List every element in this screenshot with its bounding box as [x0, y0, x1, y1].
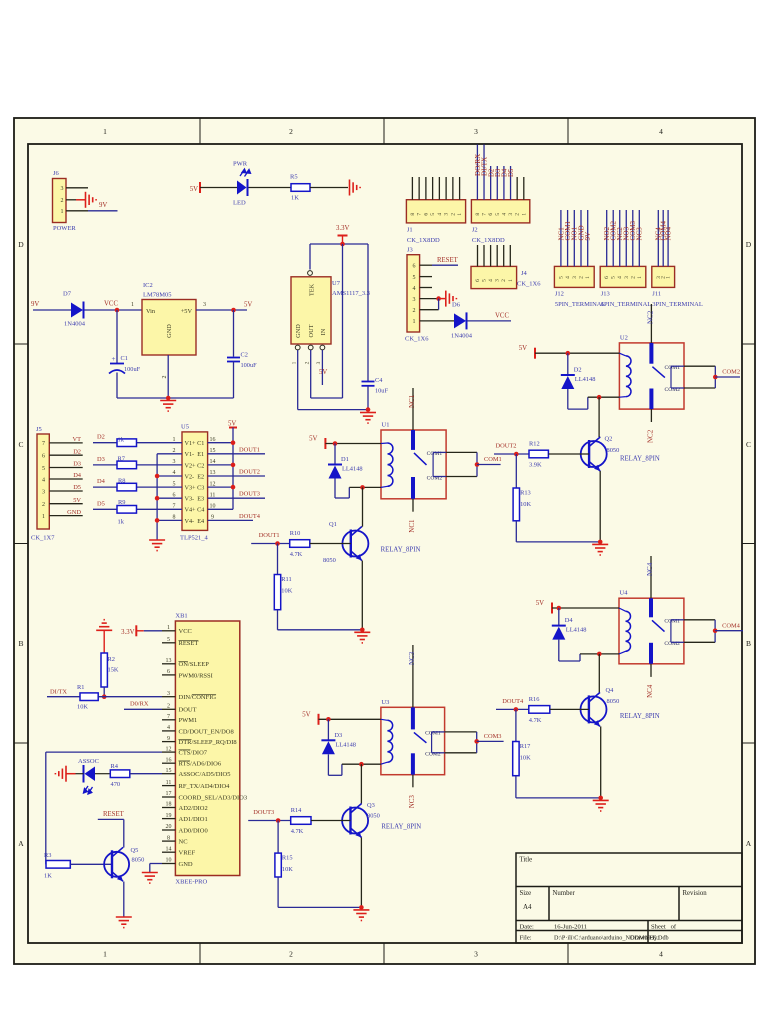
svg-text:D4: D4 — [97, 478, 106, 485]
svg-text:D4: D4 — [565, 617, 574, 624]
relay U4 RELAY_8PIN — [619, 590, 684, 664]
svg-text:LL4148: LL4148 — [575, 376, 596, 383]
svg-text:3PIN_TERMINAL: 3PIN_TERMINAL — [652, 301, 703, 308]
J6 pin 1 — [66, 210, 88, 212]
wire NC below U4 — [650, 664, 652, 677]
wire emitter rail — [278, 838, 364, 910]
svg-text:1k: 1k — [118, 437, 125, 444]
svg-text:DOUT3: DOUT3 — [253, 809, 274, 816]
J3 pin 5 — [420, 276, 432, 278]
svg-text:RELAY_8PIN: RELAY_8PIN — [381, 824, 421, 831]
wire 3.3V rail — [310, 242, 368, 247]
wire diode to coil- — [328, 754, 381, 775]
svg-text:10: 10 — [210, 504, 216, 510]
svg-text:D: D — [18, 240, 24, 249]
resistor R14 4.7K — [291, 807, 311, 835]
svg-text:5PIN_TERMINAL: 5PIN_TERMINAL — [555, 301, 606, 308]
svg-text:C1: C1 — [121, 355, 128, 362]
wire C4 branch — [367, 244, 369, 381]
svg-text:IC2: IC2 — [143, 282, 153, 289]
svg-text:D2: D2 — [73, 448, 81, 455]
svg-text:5: 5 — [167, 637, 170, 643]
wire GND pin1 down — [297, 350, 299, 410]
svg-text:1: 1 — [167, 625, 170, 631]
svg-text:10K: 10K — [281, 588, 292, 595]
svg-text:ASSOC/AD5/DIO5: ASSOC/AD5/DIO5 — [179, 771, 231, 778]
svg-text:13: 13 — [166, 658, 172, 664]
svg-text:3: 3 — [572, 276, 578, 279]
diode D4 LL4148 — [552, 608, 587, 640]
svg-text:5V: 5V — [309, 436, 317, 443]
junction — [436, 296, 441, 301]
svg-text:COORD_SEL/AD3/DIO3: COORD_SEL/AD3/DIO3 — [179, 794, 248, 801]
wire R2 to DIN — [103, 687, 105, 697]
svg-text:J3: J3 — [407, 247, 413, 254]
wire U3 coil to Q collector — [360, 764, 362, 803]
junction — [115, 308, 120, 313]
svg-text:V2- E2: V2- E2 — [185, 473, 205, 480]
wire — [249, 187, 292, 189]
svg-text:5: 5 — [482, 279, 488, 282]
wire — [233, 310, 235, 357]
svg-text:AD2/DIO2: AD2/DIO2 — [179, 805, 208, 812]
svg-text:3.3V: 3.3V — [336, 225, 349, 232]
svg-text:5: 5 — [42, 466, 45, 472]
wire diode to coil- — [335, 479, 381, 499]
svg-text:OUT: OUT — [308, 324, 315, 337]
svg-text:NC3: NC3 — [636, 227, 644, 241]
svg-text:2: 2 — [61, 198, 64, 204]
svg-text:5: 5 — [413, 275, 416, 281]
svg-text:TLP521_4: TLP521_4 — [180, 535, 209, 542]
svg-text:ASSOC: ASSOC — [78, 758, 99, 765]
svg-text:NC3: NC3 — [408, 651, 416, 665]
svg-text:AD0/DIO0: AD0/DIO0 — [179, 827, 208, 834]
svg-text:CK_1X6: CK_1X6 — [405, 336, 429, 343]
svg-text:1k: 1k — [118, 519, 125, 526]
wire DOUT1 — [251, 541, 290, 546]
resistor R11 10K — [274, 575, 292, 610]
wire — [76, 773, 84, 775]
svg-text:12: 12 — [166, 746, 172, 752]
svg-text:Q5: Q5 — [131, 847, 139, 854]
svg-text:8: 8 — [475, 213, 481, 216]
svg-text:1: 1 — [413, 319, 416, 325]
svg-text:6: 6 — [604, 276, 610, 279]
svg-text:B: B — [746, 639, 751, 648]
J11 pin wires — [658, 210, 668, 266]
resistor R2 15K — [101, 653, 119, 687]
wire VCC — [467, 320, 511, 322]
svg-text:C4: C4 — [375, 377, 383, 384]
svg-text:5V: 5V — [302, 711, 310, 718]
svg-text:6: 6 — [475, 279, 481, 282]
svg-text:5: 5 — [611, 276, 617, 279]
svg-text:D5: D5 — [97, 500, 105, 507]
svg-text:5: 5 — [430, 213, 436, 216]
svg-text:LL4148: LL4148 — [335, 741, 356, 748]
svg-text:J6: J6 — [53, 170, 60, 177]
svg-text:NC4: NC4 — [646, 562, 654, 576]
svg-text:U2: U2 — [620, 334, 628, 341]
svg-text:1: 1 — [521, 213, 527, 216]
svg-text:470: 470 — [111, 781, 121, 788]
wire OUT pin2 — [311, 244, 343, 398]
svg-text:A4: A4 — [523, 903, 532, 911]
wire emitter rail — [278, 561, 365, 633]
svg-text:13: 13 — [210, 470, 216, 476]
wire DOUT4 — [496, 707, 529, 712]
J3 pin 6 + RESET wire — [420, 257, 459, 265]
ground Q1 — [354, 632, 370, 643]
wire to R13 — [515, 454, 517, 488]
ground AMS1117 — [360, 413, 376, 424]
svg-text:R1: R1 — [77, 684, 84, 691]
wire RESET — [98, 819, 124, 847]
wire — [310, 187, 348, 189]
wire U4 coil to Q collector — [598, 654, 601, 693]
svg-text:1: 1 — [508, 279, 514, 282]
wire VCC pin1 — [144, 630, 162, 632]
svg-text:VREF: VREF — [179, 850, 196, 857]
svg-text:V3+ C3: V3+ C3 — [185, 485, 205, 492]
svg-text:CK_1X6: CK_1X6 — [517, 281, 541, 288]
transistor Q4 8050 — [581, 687, 620, 726]
svg-text:J1: J1 — [407, 226, 413, 233]
connector J3 CK_1X6 — [405, 247, 429, 343]
wire DOUT2 (U5 pin13) — [208, 475, 265, 477]
J11 net labels — [655, 221, 673, 241]
zone numbers top — [103, 127, 663, 136]
svg-text:2: 2 — [305, 361, 311, 364]
svg-text:4: 4 — [413, 286, 416, 292]
svg-text:NC2: NC2 — [647, 429, 655, 443]
svg-text:3: 3 — [508, 213, 514, 216]
svg-text:D2: D2 — [574, 367, 582, 374]
svg-text:R14: R14 — [291, 807, 302, 814]
svg-text:A: A — [18, 839, 24, 848]
wire to base — [311, 820, 351, 822]
resistor R12 3.9K — [529, 441, 548, 469]
svg-text:2: 2 — [450, 213, 456, 216]
svg-text:NC3: NC3 — [408, 795, 416, 809]
svg-text:POWER: POWER — [53, 225, 76, 232]
svg-text:18: 18 — [166, 802, 172, 808]
zone letters right — [746, 240, 752, 848]
J12 net labels — [557, 221, 592, 241]
svg-text:8: 8 — [167, 835, 170, 841]
wire 5V — [196, 309, 247, 311]
svg-text:R13: R13 — [520, 490, 531, 497]
wire COM contacts U4 — [671, 620, 743, 643]
svg-text:1: 1 — [585, 276, 591, 279]
svg-text:R9: R9 — [118, 499, 125, 506]
wire U5 input row 1 — [93, 442, 182, 444]
resistor R7 1k — [117, 461, 137, 469]
U5 right pin numbers — [210, 437, 216, 521]
svg-text:2: 2 — [501, 279, 507, 282]
svg-text:16-Jun-2011: 16-Jun-2011 — [554, 923, 587, 930]
svg-text:AMS1117_3.3: AMS1117_3.3 — [332, 290, 370, 297]
junction — [166, 396, 171, 401]
svg-text:Size: Size — [520, 890, 532, 897]
svg-text:5V: 5V — [536, 600, 544, 607]
title block — [516, 853, 742, 943]
svg-text:3.9K: 3.9K — [529, 462, 542, 469]
svg-text:U1: U1 — [382, 422, 390, 429]
wire U5 input row 2 — [93, 464, 182, 466]
svg-text:COM1: COM1 — [484, 456, 502, 463]
connector J13 6PIN_TERMINAL — [600, 266, 651, 308]
J13 pin wires — [607, 210, 640, 266]
svg-text:V4- E4: V4- E4 — [185, 518, 205, 525]
svg-text:3: 3 — [413, 297, 416, 303]
ground right of R5 — [350, 180, 361, 196]
relay U1 RELAY_8PIN — [381, 422, 446, 499]
svg-text:3: 3 — [316, 361, 322, 364]
svg-text:10K: 10K — [520, 755, 531, 762]
svg-text:D0/RX: D0/RX — [130, 700, 149, 707]
svg-text:6: 6 — [42, 454, 45, 460]
svg-text:5V: 5V — [73, 497, 81, 504]
J13 net labels — [603, 221, 644, 241]
J3 pin 2 wire — [420, 299, 439, 310]
diode D3 LL4148 — [321, 719, 356, 754]
svg-text:CK_1X8DD: CK_1X8DD — [472, 237, 505, 244]
svg-text:V1+ C1: V1+ C1 — [185, 440, 205, 447]
svg-text:4: 4 — [42, 477, 45, 483]
wire CTS/DIO7 — [46, 752, 162, 864]
wire to R11 — [277, 544, 279, 575]
svg-text:COM3: COM3 — [484, 733, 502, 740]
svg-text:VCC: VCC — [179, 628, 192, 635]
wire COM contacts U3 — [432, 732, 504, 753]
power port 5V (U3) — [302, 711, 318, 725]
sheet background — [14, 118, 755, 964]
svg-text:DOUT4: DOUT4 — [502, 698, 524, 705]
wire — [116, 373, 118, 399]
svg-text:CTS/DIO7: CTS/DIO7 — [179, 750, 208, 757]
svg-text:LM78M05: LM78M05 — [143, 292, 172, 299]
svg-text:Q3: Q3 — [367, 802, 375, 809]
connector J11 3PIN_TERMINAL — [652, 266, 703, 308]
svg-text:Date:: Date: — [520, 923, 534, 930]
svg-text:D5: D5 — [73, 484, 81, 491]
resistor R8 1k — [117, 483, 137, 491]
svg-text:8050: 8050 — [607, 698, 620, 705]
svg-text:J12: J12 — [555, 290, 564, 297]
wire U5 input row 4 — [93, 508, 182, 510]
svg-text:COM4: COM4 — [722, 622, 741, 629]
wire NC below U2 — [650, 409, 652, 422]
svg-text:10K: 10K — [77, 704, 88, 711]
wire 9V — [88, 210, 118, 212]
svg-text:2: 2 — [289, 950, 293, 959]
J2 pins 3-6 wires — [491, 166, 511, 200]
wire 5V — [319, 717, 381, 722]
svg-text:DTR/SLEEP_RQ/DI8: DTR/SLEEP_RQ/DI8 — [179, 739, 237, 746]
diode D7 1N4004 — [63, 291, 86, 328]
svg-text:1K: 1K — [291, 195, 299, 202]
svg-text:10K: 10K — [282, 866, 293, 873]
svg-text:R16: R16 — [529, 696, 540, 703]
LED PWR — [233, 161, 251, 207]
svg-text:8: 8 — [173, 515, 176, 521]
resistor R16 4.7K — [529, 696, 550, 724]
XB1 pin stubs — [162, 631, 175, 864]
svg-text:7: 7 — [173, 504, 176, 510]
J1 pins — [412, 177, 459, 200]
power port 5V (U2) — [519, 345, 535, 359]
svg-text:D: D — [746, 240, 752, 249]
svg-text:R12: R12 — [529, 441, 540, 448]
wire GND pin10 — [150, 864, 162, 873]
svg-text:+: + — [112, 355, 116, 363]
svg-text:4: 4 — [659, 127, 663, 136]
resistor R4 470 — [110, 763, 130, 788]
wire diode to coil- — [559, 640, 619, 661]
svg-text:5: 5 — [558, 276, 564, 279]
wire NC above U4 — [650, 556, 652, 598]
svg-text:File:: File: — [520, 934, 532, 941]
power port 5V (U1) — [309, 436, 325, 450]
svg-text:NO4: NO4 — [665, 226, 673, 240]
wire — [67, 773, 76, 775]
svg-text:3: 3 — [474, 127, 478, 136]
svg-text:C: C — [18, 440, 23, 449]
transistor Q1 8050 — [323, 521, 368, 564]
connector J1 CK_1X8DD — [406, 200, 465, 244]
J3 pin 3 — [420, 298, 439, 300]
zone letters left — [18, 240, 24, 848]
svg-text:Q1: Q1 — [329, 521, 337, 528]
svg-text:AD1/DIO1: AD1/DIO1 — [179, 816, 208, 823]
svg-text:TEK: TEK — [309, 283, 316, 296]
J5 pin stubs — [49, 443, 82, 516]
ground Q2 — [592, 544, 608, 555]
svg-text:15: 15 — [210, 448, 216, 454]
resistor R5 1K — [290, 174, 310, 202]
svg-text:RESET: RESET — [179, 640, 199, 647]
svg-text:XB1: XB1 — [175, 613, 187, 620]
svg-text:4: 4 — [437, 213, 443, 216]
svg-text:3: 3 — [61, 186, 64, 192]
svg-text:CD/DOUT_EN/DO8: CD/DOUT_EN/DO8 — [179, 728, 234, 735]
svg-text:RF_TX/AD4/DIO4: RF_TX/AD4/DIO4 — [179, 783, 231, 790]
svg-text:1: 1 — [637, 276, 643, 279]
wire to base — [310, 543, 351, 545]
svg-text:5V: 5V — [244, 302, 252, 309]
relay U3 RELAY_8PIN — [381, 699, 445, 775]
svg-text:C2: C2 — [241, 352, 248, 359]
LED ASSOC — [84, 765, 96, 794]
svg-text:VCC: VCC — [495, 313, 509, 320]
wire DIN to pin3 — [98, 696, 162, 698]
wire bottom rail — [298, 409, 368, 411]
svg-text:U5: U5 — [181, 424, 189, 431]
svg-text:RESET: RESET — [103, 811, 125, 818]
wire to base — [550, 708, 589, 710]
svg-text:10: 10 — [166, 858, 172, 864]
svg-text:1: 1 — [173, 437, 176, 443]
ground at J3 pin 3 — [439, 291, 457, 307]
svg-text:8050: 8050 — [367, 813, 380, 820]
wire R3 to Q5 base — [70, 863, 112, 865]
svg-text:D7: D7 — [63, 291, 72, 298]
wire NC above U1 — [412, 388, 414, 430]
svg-text:1N4004: 1N4004 — [64, 321, 86, 328]
svg-text:9: 9 — [167, 736, 170, 742]
connector J2 CK_1X8DD — [471, 200, 529, 244]
svg-text:RELAY_8PIN: RELAY_8PIN — [381, 547, 421, 554]
svg-text:V4+ C4: V4+ C4 — [185, 507, 205, 514]
svg-text:GND: GND — [179, 861, 193, 868]
regulator U7 AMS1117_3.3 — [291, 271, 370, 365]
ground Q4 — [593, 800, 609, 811]
svg-text:U7: U7 — [332, 280, 341, 287]
svg-text:1: 1 — [103, 127, 107, 136]
capacitor C2 100uF — [227, 352, 257, 370]
svg-text:GND: GND — [67, 509, 81, 516]
svg-text:3: 3 — [444, 213, 450, 216]
power port 5V (U4) — [536, 600, 552, 614]
svg-text:7: 7 — [482, 213, 488, 216]
junction — [366, 407, 371, 412]
svg-text:GND: GND — [295, 324, 302, 338]
svg-text:R4: R4 — [111, 763, 119, 770]
svg-text:2: 2 — [42, 502, 45, 508]
svg-text:ON/SLEEP: ON/SLEEP — [179, 661, 210, 668]
svg-text:D2: D2 — [97, 434, 105, 441]
wire DOUT4 (U5 pin9) — [208, 519, 253, 521]
svg-text:4: 4 — [659, 950, 663, 959]
wire — [200, 187, 237, 189]
svg-text:3.3V: 3.3V — [121, 629, 134, 636]
svg-text:LL4148: LL4148 — [566, 627, 587, 634]
resistor R10 4.7K — [290, 530, 310, 558]
svg-text:VT: VT — [72, 436, 81, 443]
wire emitter rail — [516, 471, 602, 544]
svg-text:15: 15 — [166, 768, 172, 774]
connector J12 5PIN_TERMINAL — [554, 266, 605, 308]
wire — [33, 309, 71, 311]
svg-text:3: 3 — [167, 691, 170, 697]
svg-text:D3: D3 — [334, 732, 342, 739]
wire U1 coil to Q collector — [361, 487, 364, 526]
wire to R15 — [277, 821, 279, 854]
voltage regulator IC2 LM78M05 — [142, 282, 196, 355]
svg-text:J2: J2 — [472, 226, 478, 233]
wire Q5 emitter to ground — [123, 882, 125, 918]
wire — [367, 386, 369, 410]
connector J6 POWER — [53, 170, 77, 232]
wire VCC — [85, 309, 143, 311]
svg-text:J13: J13 — [601, 290, 610, 297]
ground at J6 pin 2 — [76, 192, 96, 208]
U5 5V rail — [208, 428, 237, 510]
svg-text:LED: LED — [233, 200, 246, 207]
svg-text:6: 6 — [413, 264, 416, 270]
svg-text:1: 1 — [292, 361, 298, 364]
svg-text:Q2: Q2 — [605, 436, 613, 443]
wire DOUT3 — [248, 818, 291, 823]
svg-text:B: B — [18, 639, 23, 648]
sheet inner border — [28, 144, 742, 943]
svg-text:1N4004: 1N4004 — [451, 333, 473, 340]
svg-text:J4: J4 — [521, 270, 528, 277]
svg-text:Q4: Q4 — [606, 687, 615, 694]
svg-text:7: 7 — [417, 213, 423, 216]
